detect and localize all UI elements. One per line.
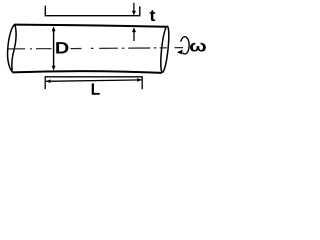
D bottom arrowhead (52, 66, 56, 71)
omega label (190, 43, 206, 52)
D dimension line (53, 30, 55, 68)
cylinder bottom edge (13, 71, 162, 73)
right end ellipse (159, 26, 170, 73)
rotation arrowhead (177, 50, 183, 55)
t down arrow (133, 3, 135, 12)
t label (150, 10, 156, 21)
L right arrowhead (137, 78, 141, 82)
left end ellipse (8, 24, 17, 72)
L left arrowhead (46, 79, 50, 83)
D label (56, 42, 68, 53)
rotation arrow arc (181, 37, 189, 54)
L bracket (45, 77, 142, 90)
cylinder top edge (14, 25, 166, 27)
L label (92, 83, 100, 94)
t bracket (45, 6, 140, 16)
D top arrowhead (52, 26, 56, 31)
L dimension arrow line (46, 80, 142, 81)
centerline (dash-dot axis) (8, 48, 183, 49)
t up arrow (133, 32, 135, 42)
